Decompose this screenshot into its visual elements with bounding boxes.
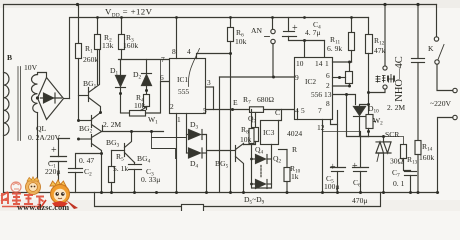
svg-text:1: 1 <box>325 59 329 68</box>
svg-text:3: 3 <box>207 78 211 87</box>
svg-text:5: 5 <box>203 106 207 115</box>
svg-text:E: E <box>233 98 238 107</box>
svg-text:D5~D9: D5~D9 <box>244 195 265 206</box>
svg-text:IC3: IC3 <box>263 128 275 137</box>
svg-text:NHO—4C: NHO—4C <box>394 56 405 102</box>
svg-text:AN: AN <box>251 26 262 35</box>
svg-text:2: 2 <box>170 102 174 111</box>
svg-text:0. 2A/20V: 0. 2A/20V <box>28 133 61 142</box>
svg-text:470μ: 470μ <box>352 196 367 205</box>
svg-text:160k: 160k <box>123 41 138 50</box>
svg-text:555: 555 <box>178 87 189 96</box>
svg-text:0. 1: 0. 1 <box>393 179 405 188</box>
svg-text:C: C <box>275 108 280 117</box>
svg-text:1k: 1k <box>291 172 299 181</box>
svg-text:160k: 160k <box>419 153 434 162</box>
svg-text:220μ: 220μ <box>45 167 60 176</box>
svg-text:556: 556 <box>311 90 322 99</box>
svg-text:SCR: SCR <box>385 130 400 139</box>
svg-text:14: 14 <box>315 59 323 68</box>
svg-text:100μ: 100μ <box>324 182 339 191</box>
svg-text:IC1: IC1 <box>177 75 188 84</box>
svg-text:13: 13 <box>324 90 332 99</box>
svg-text:4024: 4024 <box>287 129 302 138</box>
svg-text:10k: 10k <box>240 135 252 144</box>
svg-text:8: 8 <box>172 47 176 56</box>
svg-text:10V: 10V <box>24 63 38 72</box>
svg-text:B: B <box>7 53 12 62</box>
svg-text:K: K <box>428 44 434 53</box>
svg-text:10: 10 <box>296 59 304 68</box>
svg-text:2: 2 <box>326 81 330 90</box>
svg-text:+: + <box>292 23 298 34</box>
svg-text:10k: 10k <box>134 101 146 110</box>
svg-text:2. 2M: 2. 2M <box>103 120 121 129</box>
svg-text:260k: 260k <box>83 55 98 64</box>
svg-text:+: + <box>330 162 336 173</box>
svg-text:+: + <box>352 161 358 172</box>
svg-text:6. 9k: 6. 9k <box>327 44 342 53</box>
svg-text:4: 4 <box>187 47 191 56</box>
svg-text:13k: 13k <box>102 41 114 50</box>
svg-text:12: 12 <box>317 123 325 132</box>
svg-text:4: 4 <box>295 106 299 115</box>
svg-text:30Ω: 30Ω <box>390 157 404 166</box>
svg-text:QL: QL <box>36 124 46 133</box>
svg-text:10k: 10k <box>235 37 247 46</box>
svg-text:47k: 47k <box>374 46 386 55</box>
svg-text:2. 2M: 2. 2M <box>387 103 405 112</box>
svg-text:5. 1k: 5. 1k <box>113 164 128 173</box>
svg-text:8: 8 <box>326 99 330 108</box>
svg-text:IC2: IC2 <box>305 77 316 86</box>
svg-text:6: 6 <box>160 73 164 82</box>
svg-text:4. 7μ: 4. 7μ <box>305 28 320 37</box>
svg-text:7: 7 <box>161 55 165 64</box>
svg-text:9: 9 <box>295 73 299 82</box>
svg-text:www.dzsc.com: www.dzsc.com <box>17 203 69 211</box>
svg-text:~220V: ~220V <box>430 99 451 108</box>
svg-text:6: 6 <box>326 71 330 80</box>
svg-text:+: + <box>51 145 57 156</box>
svg-text:680Ω: 680Ω <box>257 95 274 104</box>
svg-text:7: 7 <box>318 106 322 115</box>
svg-text:5: 5 <box>301 106 305 115</box>
svg-text:0. 47: 0. 47 <box>79 156 94 165</box>
svg-text:0. 33μ: 0. 33μ <box>141 175 160 184</box>
svg-text:1: 1 <box>177 115 181 124</box>
